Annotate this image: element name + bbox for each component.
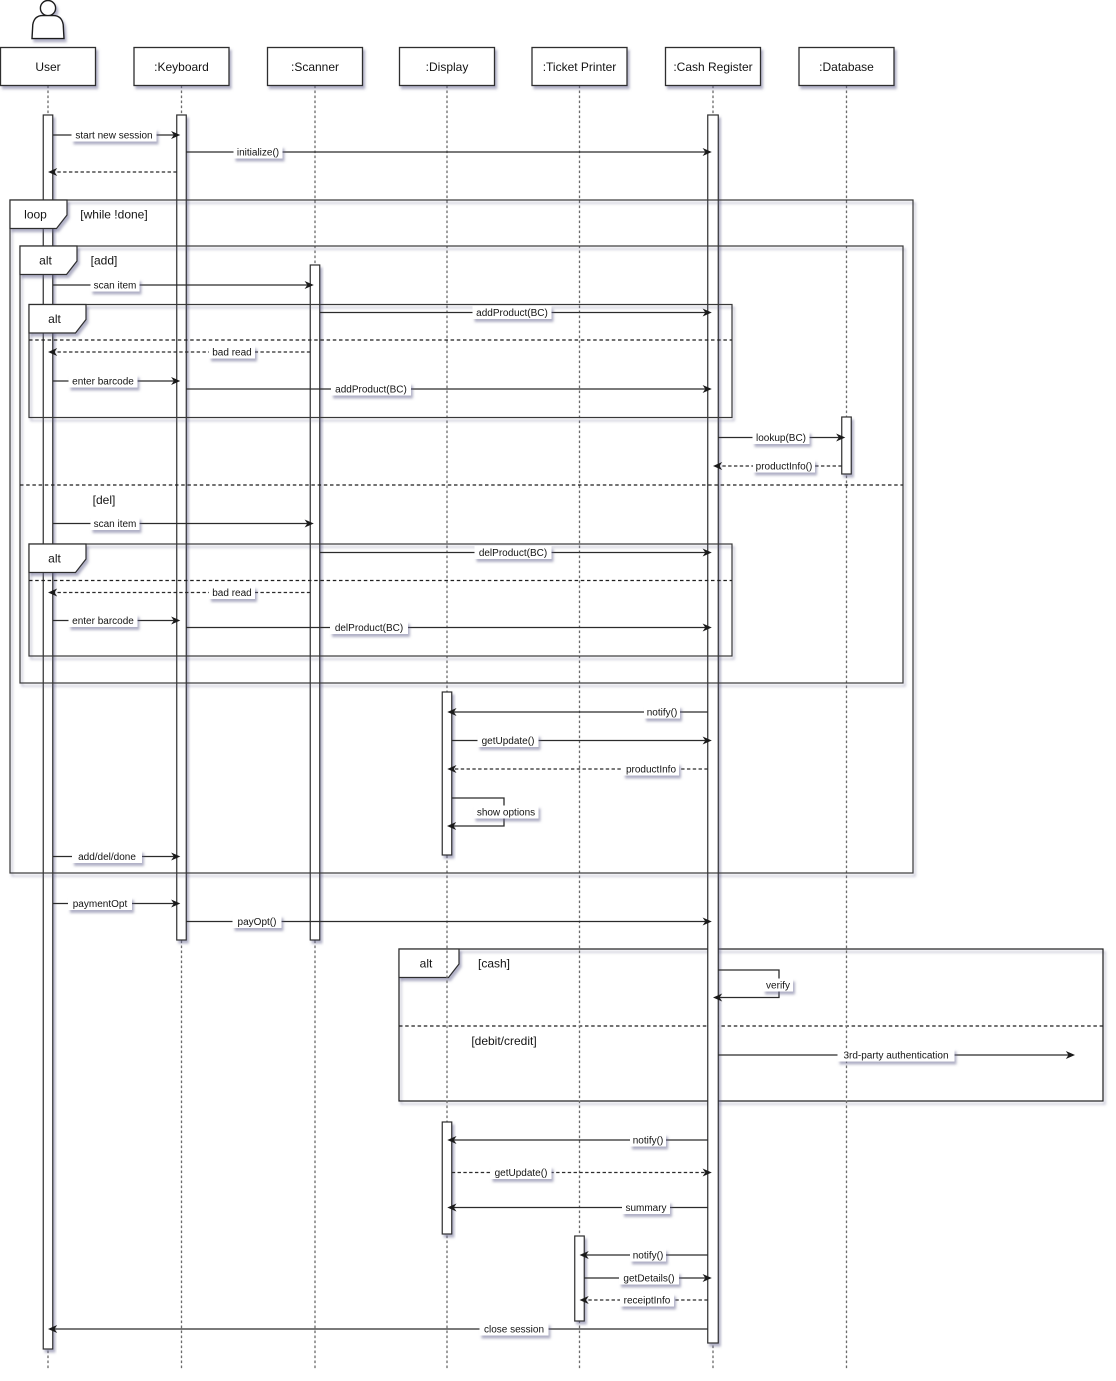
message addProduct(BC) 2 [186, 385, 712, 393]
message getUpdate() 2 [452, 1169, 712, 1177]
svg-text:getUpdate(): getUpdate() [495, 1168, 548, 1179]
message bad read 2 [48, 589, 310, 597]
svg-text:[debit/credit]: [debit/credit] [471, 1034, 536, 1048]
message addProduct(BC) [320, 309, 712, 317]
lifeline :Cash Register [712, 86, 714, 1371]
label bad read [209, 346, 255, 359]
svg-text:initialize(): initialize() [237, 148, 279, 159]
svg-text:close session: close session [484, 1325, 544, 1336]
fragment loop [while !done] [10, 200, 913, 873]
svg-text::Ticket Printer: :Ticket Printer [543, 60, 617, 74]
svg-text:loop: loop [24, 207, 47, 221]
message return to User [48, 168, 177, 176]
message enter barcode 2 [53, 617, 181, 625]
activation bar User [43, 115, 53, 1349]
svg-text:start new session: start new session [75, 131, 152, 142]
label payOpt() [233, 915, 282, 928]
label bad read [209, 586, 255, 599]
message summary [447, 1204, 707, 1212]
svg-text:show options: show options [477, 808, 535, 819]
message initialize() [186, 148, 712, 156]
lifeline :Database [846, 86, 848, 1371]
svg-text:add/del/done: add/del/done [78, 852, 136, 863]
svg-text:alt: alt [48, 312, 61, 326]
svg-text::Keyboard: :Keyboard [154, 60, 209, 74]
label verify [763, 979, 793, 992]
label notify() [644, 706, 680, 719]
label show options [474, 806, 539, 819]
lifeline :Keyboard [181, 86, 183, 1371]
svg-text:enter barcode: enter barcode [72, 616, 134, 627]
label addProduct(BC) [473, 306, 552, 319]
svg-text:delProduct(BC): delProduct(BC) [479, 548, 547, 559]
message productInfo() [713, 462, 842, 470]
svg-text:addProduct(BC): addProduct(BC) [335, 385, 407, 396]
svg-text:[del]: [del] [93, 493, 116, 507]
svg-text:notify(): notify() [633, 1136, 664, 1147]
message delProduct(BC) [320, 549, 712, 557]
activation bar Cash Register [708, 115, 719, 1343]
object box :Keyboard [134, 48, 229, 86]
object box :Ticket Printer [532, 48, 627, 86]
label notify() [630, 1134, 666, 1147]
label 3rd-party authentication [838, 1049, 955, 1062]
svg-text:[while !done]: [while !done] [80, 207, 147, 221]
lifeline :Ticket Printer [579, 86, 581, 1371]
label enter barcode [69, 375, 138, 388]
message bad read [48, 348, 310, 356]
message receiptInfo [580, 1296, 708, 1304]
svg-text:verify: verify [766, 981, 790, 992]
fragment alt inner A (bad read) [29, 305, 732, 418]
fragment alt [cash]/[debit-credit] [399, 949, 1103, 1101]
lifeline :Display [446, 86, 448, 1371]
svg-text:summary: summary [625, 1203, 666, 1214]
label start new session [72, 129, 157, 142]
label lookup(BC) [753, 431, 810, 444]
activation bar Ticket Printer [575, 1236, 585, 1321]
svg-text:receiptInfo: receiptInfo [624, 1296, 671, 1307]
svg-text:addProduct(BC): addProduct(BC) [476, 308, 548, 319]
label getUpdate() [478, 734, 539, 747]
label notify() [630, 1249, 666, 1262]
svg-text:notify(): notify() [647, 708, 678, 719]
fragment alt [add]/[del] [20, 246, 903, 683]
message paymentOpt [53, 900, 181, 908]
message add/del/done [53, 853, 181, 861]
activation bar Database [842, 417, 852, 474]
label summary [622, 1201, 670, 1214]
svg-text:alt: alt [48, 551, 61, 565]
activation bar Keyboard [177, 115, 187, 940]
label delProduct(BC) [330, 621, 408, 634]
message getUpdate() [452, 737, 712, 745]
svg-text:alt: alt [420, 956, 433, 970]
label receiptInfo [620, 1294, 674, 1307]
svg-text:[cash]: [cash] [478, 956, 510, 970]
object box :Cash Register [666, 48, 761, 86]
message start new session [53, 131, 181, 139]
message delProduct(BC) 2 [186, 624, 712, 632]
label productInfo() [753, 460, 815, 473]
fragment alt inner B (bad read) [29, 544, 732, 656]
message enter barcode [53, 377, 181, 385]
label enter barcode [69, 614, 138, 627]
message notify() 3 [580, 1251, 708, 1259]
svg-text:productInfo: productInfo [626, 765, 676, 776]
message payOpt() [186, 918, 712, 926]
svg-text:User: User [35, 60, 60, 74]
svg-text:[add]: [add] [91, 253, 118, 267]
svg-text:notify(): notify() [633, 1251, 664, 1262]
object box :Display [400, 48, 495, 86]
label close session [480, 1323, 549, 1336]
message productInfo [447, 765, 707, 773]
svg-text:scan item: scan item [94, 519, 137, 530]
label scan item [91, 517, 140, 530]
svg-text::Cash Register: :Cash Register [673, 60, 752, 74]
message notify() 2 [447, 1136, 707, 1144]
message notify() [447, 708, 707, 716]
label initialize() [234, 146, 283, 159]
svg-text::Database: :Database [819, 60, 874, 74]
label productInfo [623, 763, 679, 776]
object box :Database [799, 48, 894, 86]
activation bar Display 1 [442, 692, 452, 855]
svg-text:productInfo(): productInfo() [756, 462, 813, 473]
message lookup(BC) [718, 434, 845, 442]
label addProduct(BC) [331, 383, 411, 396]
message scan item [53, 281, 314, 289]
svg-text::Display: :Display [426, 60, 469, 74]
svg-text:enter barcode: enter barcode [72, 377, 134, 388]
svg-text:getDetails(): getDetails() [623, 1274, 674, 1285]
label getUpdate() [491, 1166, 552, 1179]
lifeline :Scanner [314, 86, 316, 1371]
object box User [1, 48, 96, 86]
self message verify [713, 970, 779, 1002]
svg-text:payOpt(): payOpt() [238, 917, 277, 928]
svg-text:alt: alt [39, 253, 52, 267]
label add/del/done [72, 850, 142, 863]
self message show options [447, 798, 504, 830]
message 3rd-party authentication [718, 1051, 1075, 1059]
label paymentOpt [68, 897, 132, 910]
svg-text::Scanner: :Scanner [291, 60, 339, 74]
svg-text:paymentOpt: paymentOpt [73, 899, 128, 910]
label getDetails() [619, 1272, 679, 1285]
svg-text:bad read: bad read [212, 348, 251, 359]
svg-text:bad read: bad read [212, 588, 251, 599]
svg-text:lookup(BC): lookup(BC) [756, 433, 806, 444]
svg-text:3rd-party authentication: 3rd-party authentication [843, 1051, 948, 1062]
object box :Scanner [268, 48, 363, 86]
svg-text:delProduct(BC): delProduct(BC) [335, 623, 403, 634]
svg-text:scan item: scan item [94, 281, 137, 292]
actor User icon [32, 1, 64, 39]
activation bar Display 2 [442, 1122, 452, 1234]
message getDetails() [584, 1274, 712, 1282]
lifeline User [47, 86, 49, 1371]
label delProduct(BC) [475, 546, 552, 559]
svg-text:getUpdate(): getUpdate() [482, 736, 535, 747]
activation bar Scanner [310, 265, 320, 940]
label scan item [91, 279, 140, 292]
message close session [48, 1325, 708, 1333]
message scan item 2 [53, 520, 314, 528]
